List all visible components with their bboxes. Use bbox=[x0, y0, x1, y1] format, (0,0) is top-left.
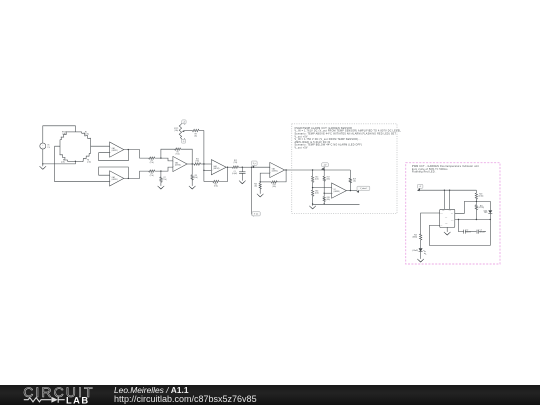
node OA1 output junction bbox=[128, 149, 129, 150]
node G junction bbox=[285, 169, 286, 170]
wire rail to U3 RST pin bbox=[444, 190, 445, 210]
resistor R2 (bridge bottom-left arm) bbox=[60, 154, 68, 164]
wire rail to U3 VCC pin bbox=[449, 190, 450, 210]
wire bottom rail bbox=[313, 203, 360, 205]
resistor RTD1 (bridge top-left arm) bbox=[60, 132, 67, 140]
node H junction (rail/R15) bbox=[312, 169, 313, 170]
timer U3 NE555 bbox=[440, 209, 455, 227]
wire LED1 cathode down bbox=[490, 213, 491, 220]
ground for R9 bbox=[189, 186, 196, 189]
resistor R9 load to ground bbox=[191, 164, 198, 186]
resistor R13 to ground bbox=[254, 182, 261, 194]
op-amp OA2 bbox=[110, 171, 124, 186]
node D junction bbox=[203, 170, 204, 171]
LED D1 red bbox=[484, 210, 493, 214]
node N junction bbox=[476, 219, 477, 220]
node I junction bbox=[312, 187, 313, 188]
op-amp OA5 bbox=[270, 162, 285, 177]
wire output loop bbox=[429, 220, 490, 246]
node E junction bbox=[242, 167, 243, 168]
wire to OA4 non-inverting input bbox=[204, 169, 212, 171]
wire bridge right node to OA1 input bbox=[91, 145, 110, 147]
wire R4 to OA3 inverting input bbox=[155, 158, 173, 161]
wire OA2 output to R5 bbox=[124, 171, 149, 178]
node L junction (output) bbox=[350, 190, 351, 191]
node OA3 output junction bbox=[192, 163, 193, 164]
wire OA4 output bbox=[226, 166, 232, 168]
wire OA5 inverting input bbox=[260, 173, 270, 182]
node OA2 output junction bbox=[128, 178, 129, 179]
wire LED2 cathode to ground bbox=[420, 252, 422, 259]
capacitor C3 bbox=[477, 230, 486, 234]
node bridge bottom junction bbox=[75, 161, 76, 162]
resistor R11 feedback bbox=[204, 167, 228, 188]
wire THR line bbox=[455, 219, 491, 221]
ground for R7 bbox=[158, 186, 165, 189]
resistor R1 (bridge top-right arm) bbox=[82, 132, 91, 140]
LED D2 red bbox=[412, 248, 426, 254]
wire OA5 output rail bbox=[285, 169, 351, 171]
resistor R7 to ground bbox=[160, 171, 167, 186]
wire bridge right edge bbox=[90, 140, 92, 154]
wire M to LED1 anode bbox=[476, 201, 490, 210]
node E2 junction bbox=[251, 167, 252, 168]
annotation box OVER/TEMP ALARM CCT bbox=[292, 124, 402, 213]
wire comparator output bbox=[346, 190, 357, 192]
resistor R18 bbox=[323, 193, 330, 205]
resistor R6 feedback bbox=[161, 148, 192, 164]
wire bridge top edge bbox=[67, 131, 81, 133]
node M junction bbox=[476, 201, 477, 202]
node junction at V1- bbox=[42, 163, 43, 164]
wire V1+ to bridge top bbox=[43, 126, 76, 143]
wire OA3 output bbox=[187, 163, 194, 165]
svg-text:LAB: LAB bbox=[66, 395, 90, 405]
resistor R10 bbox=[194, 158, 201, 165]
ground for U3 bbox=[444, 227, 451, 235]
wire R10 to OA4 bbox=[201, 163, 212, 165]
node flag +5V (PWM) bbox=[417, 184, 423, 191]
resistor R4 bbox=[149, 157, 155, 164]
op-amp OA4 bbox=[211, 160, 226, 175]
resistor R12 bbox=[232, 160, 238, 168]
comparator U2 LM393 bbox=[332, 183, 347, 198]
ground for divider bbox=[309, 203, 316, 209]
wire bridge bottom edge bbox=[67, 160, 81, 162]
resistor R17 bbox=[323, 167, 330, 193]
op-amp OA3 bbox=[173, 156, 187, 171]
wire OA2 feedback loop bbox=[99, 167, 129, 178]
wire OA1 feedback loop bbox=[99, 150, 129, 161]
wire node E down to flag bbox=[251, 167, 253, 214]
op-amp OA1 bbox=[110, 142, 124, 157]
node label -5V (pot bottom) bbox=[180, 137, 185, 143]
resistor R15 bbox=[312, 170, 320, 188]
wire TRI pin to R22 bbox=[421, 213, 440, 234]
resistor R20 bbox=[475, 190, 484, 201]
node B junction bbox=[160, 170, 161, 171]
wire bridge left edge bbox=[59, 140, 61, 154]
ground for V1 bbox=[40, 164, 47, 169]
capacitor C1 bbox=[232, 167, 245, 180]
resistor R16 bbox=[312, 188, 320, 204]
resistor R3 (bridge bottom-right arm) bbox=[82, 153, 92, 163]
node flag V_out bbox=[251, 161, 257, 168]
wire node E to OA5 bbox=[252, 166, 270, 168]
resistor R8 from pot wiper bbox=[186, 129, 204, 137]
wire K to comparator non-inverting input bbox=[324, 192, 331, 194]
node J junction (rail/flag) bbox=[324, 169, 325, 170]
wire R12 to node E bbox=[238, 166, 251, 168]
ground for R13 bbox=[257, 194, 264, 197]
node K junction bbox=[324, 193, 325, 194]
wire PWM top rail bbox=[420, 188, 477, 190]
resistor R21 bbox=[475, 201, 484, 219]
voltage source V1 bbox=[40, 143, 51, 149]
node F junction bbox=[260, 181, 261, 182]
node A junction bbox=[160, 157, 161, 158]
resistor R14 feedback bbox=[260, 170, 286, 188]
ground for C1 bbox=[239, 181, 246, 184]
node OA4 output junction bbox=[227, 167, 228, 168]
node label +5V (pot top) bbox=[180, 120, 186, 125]
resistor R22 bbox=[412, 234, 421, 248]
wire V1- to bridge bottom bbox=[43, 149, 76, 164]
footer bar bbox=[0, 385, 540, 405]
wire I to comparator inverting input bbox=[313, 187, 332, 189]
node C junction bbox=[203, 163, 204, 164]
capacitor C2 bbox=[458, 219, 477, 234]
resistor R5 bbox=[149, 170, 155, 177]
node flag +5V (comparator) bbox=[321, 163, 328, 170]
resistor R19 pull-up bbox=[349, 170, 356, 191]
annotation box PWM CCT text bbox=[412, 165, 479, 174]
CircuitLab logo bbox=[0, 381, 110, 405]
wire OA1 output to R4 bbox=[124, 150, 149, 159]
wire bridge left node to OA2 input bbox=[55, 146, 110, 182]
node flag V_alarm bbox=[356, 186, 369, 193]
ground for LED2 bbox=[417, 259, 424, 262]
potentiometer POT1 bbox=[174, 125, 186, 137]
wire R5 to OA3 non-inverting input bbox=[155, 167, 173, 171]
wire pot branch down bbox=[203, 131, 205, 182]
wire M to DIS pin bbox=[455, 201, 477, 213]
node flag V_out2 bbox=[252, 212, 261, 217]
